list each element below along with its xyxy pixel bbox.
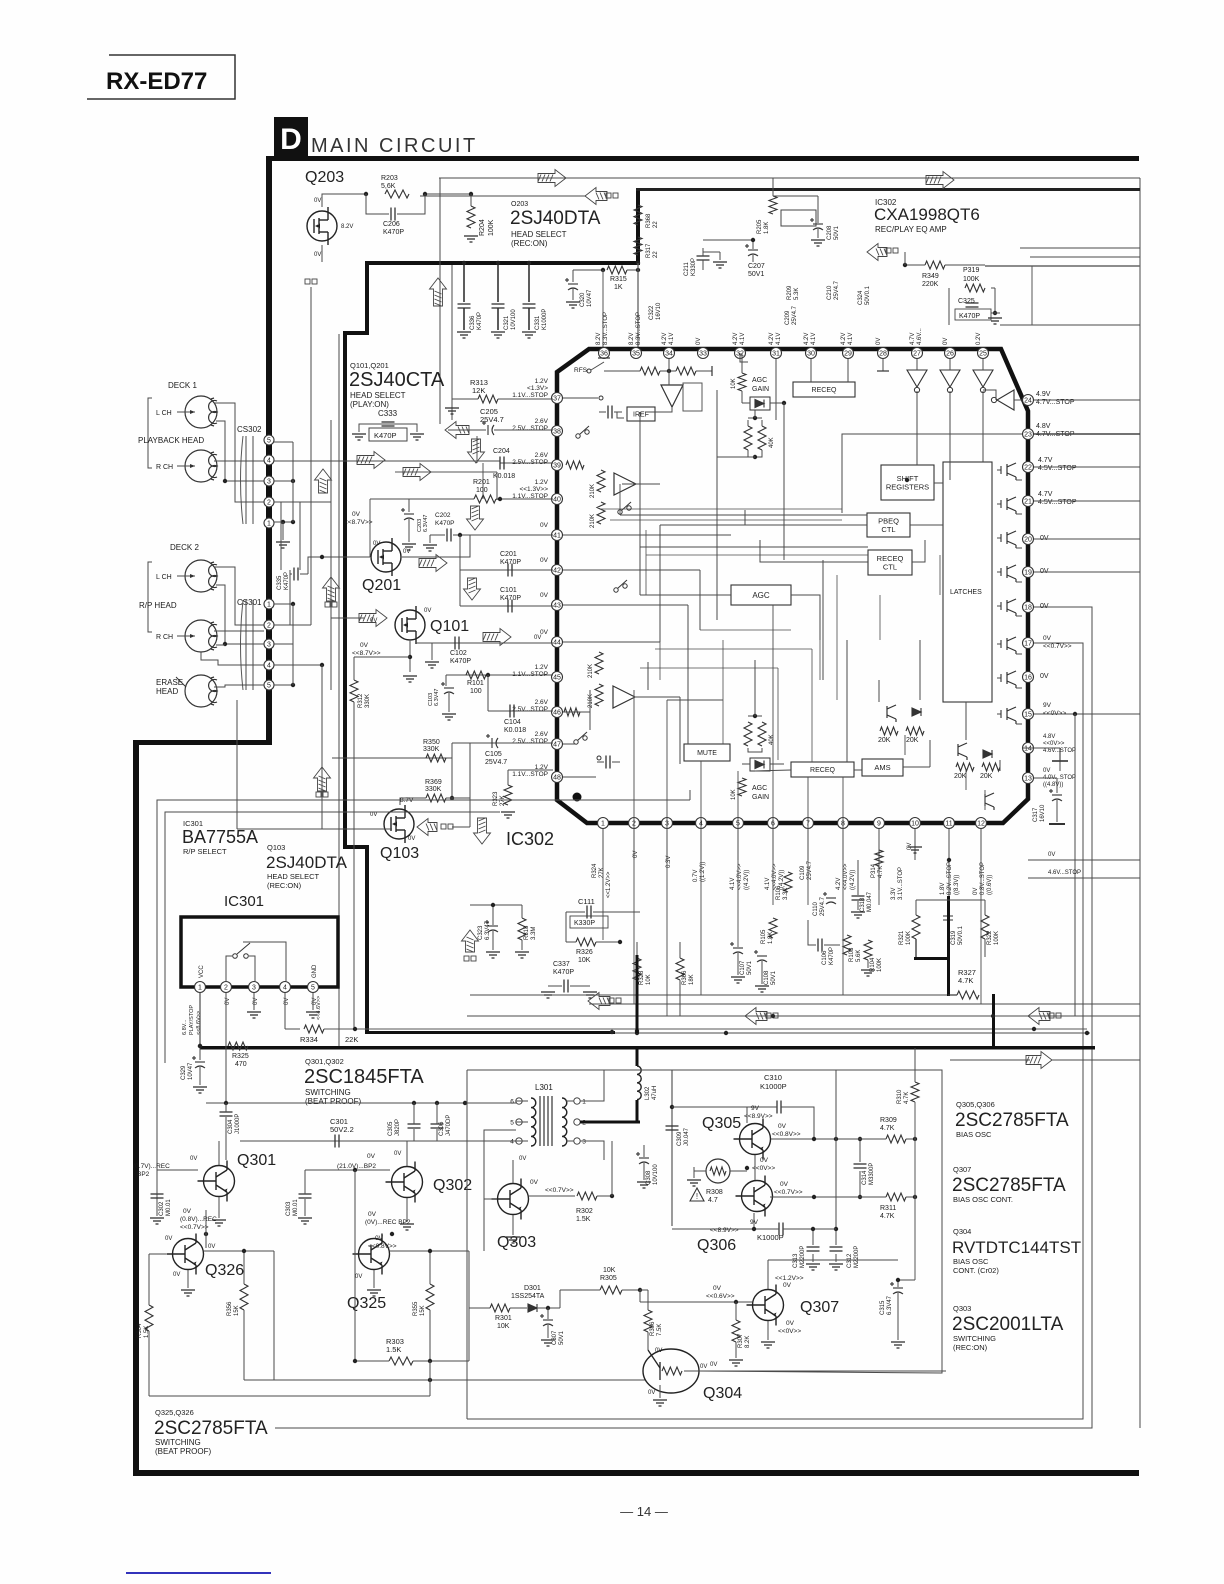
svg-text:12K: 12K [472, 386, 485, 395]
svg-text:<<0.8V>>: <<0.8V>> [772, 1131, 801, 1138]
svg-text:8.2V: 8.2V [341, 224, 353, 230]
svg-text:R324: R324 [592, 863, 598, 878]
svg-text:0V: 0V [519, 1156, 526, 1162]
svg-text:SWITCHING: SWITCHING [953, 1334, 996, 1343]
svg-text:J820P: J820P [395, 1119, 401, 1136]
svg-text:0V: 0V [778, 1123, 787, 1130]
resistor R312 [350, 680, 358, 702]
svg-text:7.5K: 7.5K [657, 1324, 663, 1336]
svg-text:C207: C207 [748, 263, 765, 270]
resistor R318 [518, 918, 526, 940]
svg-text:10: 10 [911, 821, 919, 828]
svg-text:C329: C329 [181, 1065, 187, 1080]
svg-text:25: 25 [979, 351, 987, 358]
thick wire horizontal y1031 [365, 1031, 615, 1034]
wire CS301 pin3 row [274, 643, 293, 645]
svg-text:RVTDTC144TST: RVTDTC144TST [952, 1238, 1081, 1257]
arrow down x476 [468, 439, 485, 463]
capacitor C108 [754, 950, 767, 962]
wires right below IC [1028, 859, 1140, 861]
svg-text:4: 4 [267, 458, 271, 465]
svg-text:J470DP: J470DP [446, 1115, 452, 1136]
svg-text:4.1V: 4.1V [765, 878, 771, 890]
thick wire R321 C319 bottom [914, 957, 950, 960]
svg-text:22: 22 [653, 221, 659, 228]
svg-text:<<0.7V>>: <<0.7V>> [774, 1189, 803, 1196]
svg-text:((4.8V)): ((4.8V)) [1043, 782, 1063, 788]
connector CS302 pins [264, 435, 274, 445]
svg-text:R311: R311 [880, 1205, 896, 1212]
capacitor C204 [500, 457, 504, 470]
svg-text:2SC2785FTA: 2SC2785FTA [952, 1175, 1066, 1196]
IC302 bottom pin wires [602, 829, 604, 860]
svg-text:28: 28 [879, 351, 887, 358]
arrow left y252 [867, 244, 887, 261]
diode box AGC lower [750, 758, 770, 771]
wire x477 [476, 436, 478, 463]
border left lower [133, 740, 139, 1476]
svg-text:RECEQ: RECEQ [810, 767, 835, 774]
capacitor C203 [408, 499, 410, 512]
svg-text:8.2V: 8.2V [596, 333, 602, 345]
svg-text:<1.3V>: <1.3V> [527, 385, 548, 392]
svg-text:R369: R369 [425, 779, 442, 786]
svg-text:CONT. (Cr02): CONT. (Cr02) [953, 1266, 999, 1275]
svg-text:40K: 40K [769, 734, 775, 745]
svg-text:46: 46 [553, 710, 561, 717]
svg-text:C321: C321 [504, 315, 510, 330]
svg-text:Q203: Q203 [305, 169, 344, 186]
svg-text:4.7V: 4.7V [1038, 457, 1053, 464]
svg-text:20K: 20K [954, 773, 967, 780]
svg-text:C105: C105 [485, 751, 502, 758]
svg-text:4.7K: 4.7K [904, 1092, 910, 1104]
svg-text:AGC: AGC [752, 785, 767, 792]
bracket deck1 [148, 398, 152, 468]
svg-text:50V1: 50V1 [559, 1330, 565, 1345]
wire row y1141 [240, 1140, 516, 1142]
svg-text:C104: C104 [504, 719, 521, 726]
svg-text:Q326: Q326 [205, 1262, 244, 1279]
head deck2 L [185, 560, 217, 592]
diode near 20K [912, 708, 921, 716]
svg-text:AGC: AGC [752, 377, 767, 384]
wire x483 [482, 463, 484, 499]
svg-text:0V: 0V [540, 522, 549, 529]
resistor R366 [676, 958, 684, 980]
svg-text:R106: R106 [776, 885, 782, 900]
svg-text:R310: R310 [897, 1089, 903, 1104]
svg-text:4.1V: 4.1V [740, 333, 746, 345]
wire Q203 down [321, 245, 323, 262]
svg-text:10K: 10K [731, 789, 737, 800]
capacitor C208 [810, 218, 823, 230]
svg-text:AGC: AGC [752, 591, 770, 600]
wire y266 right [985, 265, 1140, 267]
svg-text:(0V)...REC BP2: (0V)...REC BP2 [365, 1219, 411, 1226]
svg-text:50V2.2: 50V2.2 [330, 1125, 354, 1134]
svg-text:(0.7V)...REC: (0.7V)...REC [133, 1163, 170, 1170]
capacitor C302 [151, 1194, 164, 1198]
svg-text:C204: C204 [493, 448, 510, 455]
svg-text:Q304: Q304 [703, 1385, 742, 1402]
svg-text:0V: 0V [368, 1211, 377, 1218]
svg-text:Q103: Q103 [380, 845, 419, 862]
svg-text:R CH: R CH [156, 634, 173, 641]
svg-text:8.2V...STOP: 8.2V...STOP [947, 862, 953, 895]
svg-text:4.1V: 4.1V [848, 333, 854, 345]
svg-text:R204: R204 [479, 219, 486, 236]
wire y995 [470, 994, 948, 996]
connector CS301 body [245, 600, 247, 690]
svg-text:0V: 0V [540, 557, 549, 564]
svg-text:R328: R328 [639, 970, 645, 985]
svg-text:10K: 10K [578, 957, 591, 964]
head erase [185, 675, 217, 707]
svg-text:C305: C305 [388, 1121, 394, 1136]
svg-text:C324: C324 [858, 290, 864, 305]
svg-text:3.3V: 3.3V [891, 888, 897, 900]
svg-text:C318: C318 [860, 897, 866, 912]
svg-text:R105: R105 [761, 929, 767, 944]
CS302 shield tie [292, 442, 294, 522]
resistor R103 [843, 935, 851, 955]
resistor R105 [769, 918, 777, 938]
blue artifact line bottom-left [126, 1572, 271, 1574]
section tab D [274, 117, 308, 157]
resistor R306 [644, 1310, 652, 1332]
IC302 pin1 indicator dot [573, 793, 582, 802]
capacitor C306 [431, 1124, 444, 1128]
svg-text:GAIN: GAIN [752, 794, 769, 801]
wire row y1103 [206, 1102, 516, 1104]
capacitor C107 [730, 942, 743, 954]
svg-text:43: 43 [553, 603, 561, 610]
svg-text:HEAD: HEAD [156, 687, 178, 696]
svg-text:0V: 0V [360, 642, 369, 649]
svg-text:<<0V>>: <<0V>> [1043, 741, 1065, 747]
squares top of x311 [305, 279, 317, 284]
resistors 210K pair upper with opamp [597, 470, 605, 492]
svg-text:R/P SELECT: R/P SELECT [183, 847, 227, 856]
svg-text:1: 1 [267, 521, 271, 528]
resistor R106 [784, 872, 792, 892]
svg-text:D: D [280, 123, 302, 156]
svg-text:8.2V: 8.2V [629, 333, 635, 345]
svg-text:BP2: BP2 [137, 1171, 150, 1178]
resistor R310 [911, 1082, 919, 1102]
svg-text:K1000P: K1000P [757, 1233, 784, 1242]
wire Q306 collector [770, 1196, 860, 1198]
thick wire vertical x638 top [636, 188, 640, 265]
svg-text:(REC:ON): (REC:ON) [267, 881, 302, 890]
svg-text:39: 39 [553, 463, 561, 470]
svg-text:0V: 0V [370, 812, 377, 818]
svg-text:20K: 20K [980, 773, 993, 780]
transistor Q302 [386, 1162, 423, 1203]
capacitor C202 [430, 534, 445, 536]
svg-text:4.2V: 4.2V [841, 333, 847, 345]
svg-text:3.1V...STOP: 3.1V...STOP [898, 867, 904, 900]
svg-text:Q303: Q303 [953, 1304, 971, 1313]
resistor R356 [240, 1284, 248, 1310]
junction dots bus [198, 1044, 202, 1048]
svg-text:0V: 0V [355, 1274, 362, 1280]
svg-text:10V47: 10V47 [188, 1062, 194, 1080]
svg-text:3: 3 [582, 1139, 586, 1146]
wire CS301 pin4 row [274, 664, 322, 666]
svg-text:2SJ40DTA: 2SJ40DTA [266, 853, 348, 872]
svg-text:100K: 100K [877, 958, 883, 972]
svg-text:Q301,Q302: Q301,Q302 [305, 1057, 344, 1066]
resistors 40K pair lower [744, 722, 752, 746]
transistor Q307 [747, 1285, 784, 1326]
border left upper [266, 156, 272, 745]
capacitor C318 [852, 896, 865, 900]
wires heads to CS302 [214, 403, 264, 502]
svg-text:SWITCHING: SWITCHING [305, 1088, 351, 1097]
svg-text:4.7: 4.7 [708, 1197, 718, 1204]
svg-text:BIAS OSC: BIAS OSC [956, 1130, 992, 1139]
resistor R322 [981, 915, 989, 939]
svg-text:4.8V: 4.8V [1043, 734, 1055, 740]
capacitor C311 [779, 1223, 783, 1236]
svg-text:2.6V: 2.6V [535, 452, 549, 459]
svg-text:100K: 100K [906, 931, 912, 945]
L301 pin numbers [516, 1098, 522, 1104]
switch contacts upper [618, 502, 631, 514]
wire x915 column [914, 1102, 916, 1280]
svg-text:R366: R366 [682, 970, 688, 985]
svg-text:10V100: 10V100 [511, 309, 517, 330]
svg-text:0V: 0V [190, 1156, 197, 1162]
svg-text:0V: 0V [173, 1272, 180, 1278]
svg-text:R302: R302 [576, 1208, 593, 1215]
svg-text:IC302: IC302 [506, 829, 554, 849]
wire Q201 row to pin41 [402, 535, 470, 557]
svg-text:38: 38 [553, 429, 561, 436]
wire row y606 C101 to pin43 [460, 605, 553, 607]
svg-text:16V10: 16V10 [1040, 804, 1046, 822]
svg-text:<<8.7V>>: <<8.7V>> [344, 519, 373, 526]
wire y800 inner [157, 799, 690, 801]
arrow y430 [445, 422, 469, 439]
svg-text:CS301: CS301 [237, 598, 262, 607]
resistor on pin46 stub [564, 708, 580, 716]
arrow y1060 right [1026, 1052, 1052, 1069]
inverter at pin26 [940, 370, 960, 387]
resistor R349 [925, 261, 945, 269]
inner box left lower 1 [157, 800, 435, 1205]
svg-text:1K: 1K [614, 284, 623, 291]
svg-text:K470P: K470P [383, 229, 404, 236]
thick wire top bus [367, 261, 639, 265]
svg-text:C317: C317 [1033, 807, 1039, 822]
inner vertical double line [338, 334, 340, 1048]
svg-text:1: 1 [198, 985, 202, 992]
svg-text:REC/PLAY EQ AMP: REC/PLAY EQ AMP [875, 225, 947, 234]
title box RX-ED77 [87, 55, 235, 99]
svg-text:17: 17 [1024, 641, 1032, 648]
svg-text:4.9V: 4.9V [1036, 391, 1051, 398]
wire y1029 long [324, 1028, 1087, 1030]
svg-text:C308: C308 [646, 1170, 652, 1185]
svg-text:330K: 330K [425, 786, 442, 793]
svg-text:R349: R349 [922, 273, 939, 280]
connector CS302 body [245, 436, 247, 524]
capacitor C307 [540, 1314, 553, 1326]
svg-text:C209: C209 [785, 310, 791, 325]
svg-text:0V: 0V [183, 1208, 192, 1215]
arrow up x438 [430, 278, 447, 306]
svg-text:K470P: K470P [477, 312, 483, 330]
block RECEQ CTL [868, 550, 912, 575]
channel vertical wires [280, 502, 282, 570]
svg-text:PLAYBACK HEAD: PLAYBACK HEAD [138, 436, 204, 445]
svg-text:3: 3 [252, 985, 256, 992]
transistor Q325 [353, 1234, 390, 1275]
svg-text:Q306: Q306 [697, 1237, 736, 1254]
svg-text:2: 2 [224, 985, 228, 992]
resistor R308 circle [706, 1159, 730, 1183]
wire Q307 collector up [767, 1260, 769, 1289]
wire CS302 pin1 row [274, 521, 293, 523]
arrow into Q101 [359, 610, 387, 627]
wire top y178 [439, 177, 1140, 179]
svg-text:R321: R321 [899, 930, 905, 945]
svg-text:5,6K: 5,6K [381, 183, 396, 190]
svg-text:REGISTERS: REGISTERS [886, 482, 929, 491]
svg-text:C307: C307 [552, 1330, 558, 1345]
svg-text:R307: R307 [738, 1333, 744, 1348]
svg-text:2SC2001LTA: 2SC2001LTA [952, 1314, 1064, 1335]
svg-text:10K: 10K [646, 974, 652, 985]
transistor Q103 [384, 805, 414, 843]
capacitor C207 [745, 244, 758, 256]
op-amp left lower [613, 686, 635, 708]
IC301 pin wires down [199, 993, 201, 1046]
svg-text:GAIN: GAIN [752, 386, 769, 393]
svg-text:<<0.7V>>: <<0.7V>> [545, 1187, 574, 1194]
resistor R104 [864, 940, 872, 960]
svg-text:0V: 0V [367, 1153, 376, 1160]
svg-text:1SS254TA: 1SS254TA [511, 1293, 545, 1300]
capacitor C103 [445, 675, 447, 686]
resistor R321 [912, 915, 920, 939]
svg-text:<<4.0V>>: <<4.0V>> [843, 863, 849, 890]
svg-text:K470P: K470P [959, 313, 980, 320]
svg-text:DECK 1: DECK 1 [168, 381, 197, 390]
IC302 left pins [552, 393, 563, 404]
svg-text:R301: R301 [495, 1315, 512, 1322]
svg-text:330K: 330K [423, 746, 440, 753]
connector CS301 pins [264, 599, 274, 609]
svg-text:DECK 2: DECK 2 [170, 543, 199, 552]
svg-text:15K: 15K [420, 1305, 426, 1316]
svg-text:R306: R306 [650, 1321, 656, 1336]
svg-text:D301: D301 [524, 1285, 541, 1292]
oscillator column x836 [835, 1070, 837, 1245]
border top [272, 156, 1139, 161]
capacitor C321 [497, 265, 499, 302]
capacitor C301 [335, 1135, 339, 1148]
svg-text:0V: 0V [1040, 673, 1049, 680]
svg-text:41: 41 [553, 533, 561, 540]
svg-text:K470P: K470P [374, 431, 397, 440]
svg-text:37: 37 [553, 396, 561, 403]
svg-text:10K: 10K [603, 1267, 616, 1274]
svg-text:R201: R201 [473, 479, 490, 486]
svg-text:HEAD SELECT: HEAD SELECT [511, 230, 567, 239]
capacitor C336 [463, 265, 465, 302]
svg-text:C323: C323 [478, 925, 484, 940]
svg-text:0V: 0V [786, 1320, 795, 1327]
svg-text:(0.8V)...REC: (0.8V)...REC [180, 1216, 217, 1223]
wire x370 to Q201 [369, 499, 371, 557]
svg-text:<<0.7V>>: <<0.7V>> [1043, 643, 1072, 650]
thick wire horizontal y189 right [636, 188, 1140, 191]
resistor R326 [576, 938, 596, 946]
svg-text:25V4.7: 25V4.7 [834, 280, 840, 300]
svg-text:4.6V...: 4.6V... [917, 328, 923, 345]
svg-text:470: 470 [235, 1061, 247, 1068]
resistors 40K pair upper [744, 426, 752, 450]
resistor R327 [957, 991, 979, 999]
svg-text:2SJ40DTA: 2SJ40DTA [510, 208, 601, 229]
wire row y711 C104 to pin46 [488, 710, 553, 712]
capacitor C325 [966, 303, 979, 307]
svg-text:1.5K: 1.5K [386, 1345, 401, 1354]
svg-text:0V: 0V [1043, 635, 1052, 642]
svg-text:0V: 0V [165, 1236, 172, 1242]
wire pin11 to R321 area [948, 829, 950, 896]
inductor L302 [636, 1048, 639, 1066]
svg-text:0V: 0V [314, 198, 321, 204]
svg-text:((4.2V)): ((4.2V)) [744, 870, 750, 890]
svg-text:K470P: K470P [284, 572, 290, 590]
capacitor C308 [636, 1152, 649, 1164]
svg-text:<<1.2V>>: <<1.2V>> [775, 1275, 804, 1282]
inner box right column from pin17 [467, 643, 1083, 1419]
resistors 20K pair lower [956, 763, 974, 771]
svg-text:22: 22 [653, 251, 659, 258]
svg-text:4.2V: 4.2V [733, 333, 739, 345]
resistor R369 [426, 794, 446, 802]
svg-text:12: 12 [977, 821, 985, 828]
svg-text:45: 45 [553, 675, 561, 682]
svg-text:C303: C303 [286, 1201, 292, 1216]
wire vertical x440 [439, 178, 441, 424]
svg-text:2.6V: 2.6V [535, 418, 549, 425]
svg-text:K0.018: K0.018 [504, 727, 526, 734]
svg-text:5: 5 [311, 985, 315, 992]
wire Q101 gate [331, 617, 364, 619]
svg-text:10K: 10K [497, 1323, 510, 1330]
wires from right pins to border [1034, 399, 1140, 401]
block SHIFT REGISTERS [881, 465, 934, 500]
transistor Q301 [198, 1161, 235, 1202]
diode near 20K lower [983, 750, 992, 758]
svg-text:1.2V: 1.2V [535, 479, 549, 486]
inner box outer from pin18 [275, 607, 1092, 1428]
svg-text:P319: P319 [963, 267, 979, 274]
svg-text:(BEAT PROOF): (BEAT PROOF) [155, 1447, 211, 1456]
resistor R355 [426, 1284, 434, 1310]
svg-text:8.3V...STOP: 8.3V...STOP [603, 312, 609, 345]
svg-text:Q103: Q103 [267, 843, 285, 852]
wire pin23 row [1034, 433, 1140, 435]
svg-text:CS302: CS302 [237, 425, 262, 434]
